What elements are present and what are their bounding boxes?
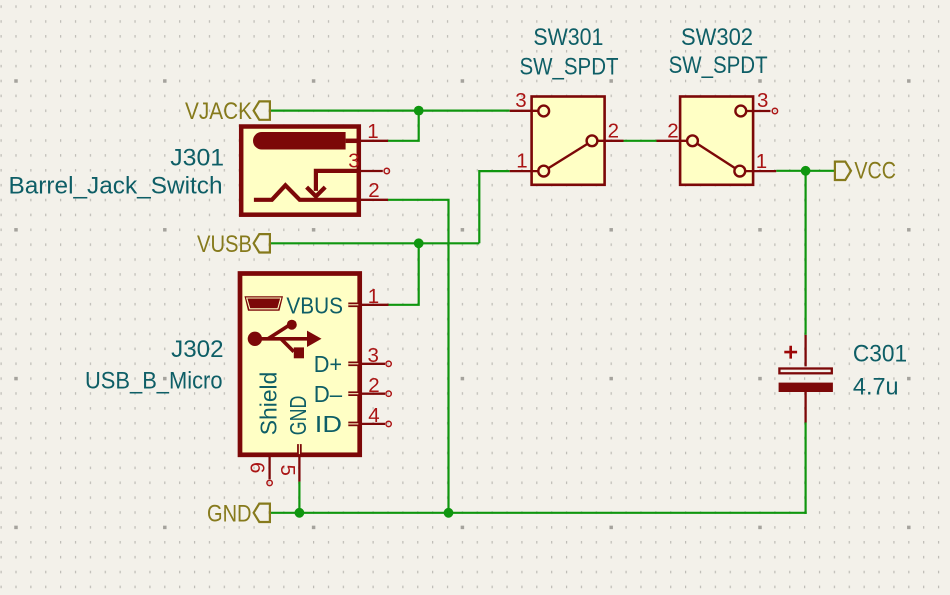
wire VUSB up to SW301 pin1 xyxy=(479,171,509,243)
J301 barrel bar graphic xyxy=(253,132,346,150)
svg-text:J302: J302 xyxy=(171,336,223,363)
svg-text:J301: J301 xyxy=(170,145,224,172)
J302 pin 1 VBUS xyxy=(348,303,358,308)
wire SW301 pin2 to SW302 pin2 xyxy=(624,140,657,142)
svg-text:GND: GND xyxy=(207,501,252,528)
C301 bottom plate xyxy=(779,383,833,392)
wire branch VUSB down to J302 pin1 xyxy=(389,243,419,304)
SW301 pin 3 xyxy=(510,110,539,112)
svg-text:C301: C301 xyxy=(853,340,907,367)
SW302 pin 2 xyxy=(657,140,688,142)
svg-text:VCC: VCC xyxy=(854,157,896,184)
connector J302 USB body xyxy=(240,274,360,455)
svg-text:3: 3 xyxy=(757,89,768,112)
svg-text:2: 2 xyxy=(368,179,379,202)
J302 USB trident icon xyxy=(255,326,307,352)
capacitor C301 top pin xyxy=(804,335,806,367)
junction J302 pin5 / GND rail xyxy=(295,508,305,518)
switch SW301 body xyxy=(532,97,605,185)
svg-text:4.7u: 4.7u xyxy=(853,373,899,400)
J301 switch zigzag xyxy=(254,185,358,200)
SW302 pin 3 (unconnected) xyxy=(735,106,746,117)
SW301 pin 2 xyxy=(587,135,598,146)
SW302 pin 1 xyxy=(734,166,745,177)
wire J301 pin2 net down to GND rail xyxy=(388,200,449,513)
svg-text:GND: GND xyxy=(285,396,311,436)
svg-text:SW301: SW301 xyxy=(533,24,603,51)
svg-text:D+: D+ xyxy=(314,351,342,377)
svg-text:VUSB: VUSB xyxy=(197,231,252,258)
C301 bottom pin xyxy=(804,392,806,423)
svg-text:VBUS: VBUS xyxy=(286,292,343,318)
J301 barrel stub to pin1 xyxy=(346,139,358,144)
wire GND rail xyxy=(270,512,807,514)
J301 switch arrow head xyxy=(307,187,326,196)
svg-text:VJACK: VJACK xyxy=(185,98,252,125)
junction J301 pin2 / GND rail xyxy=(444,508,454,518)
wire VJACK to SW301 pin3 xyxy=(270,109,510,111)
J302 pin 4 ID (unconnected) xyxy=(348,422,358,427)
svg-text:2: 2 xyxy=(667,119,678,142)
svg-text:6: 6 xyxy=(246,462,269,473)
connector J301 barrel jack body xyxy=(241,127,359,215)
J301 pin 3 (unconnected) xyxy=(358,170,383,172)
junction VUSB node xyxy=(414,238,424,248)
svg-text:USB_B_Micro: USB_B_Micro xyxy=(85,368,223,395)
svg-text:SW302: SW302 xyxy=(681,24,753,51)
global label VCC xyxy=(835,157,896,184)
J302 pin 3 D+ (unconnected) xyxy=(348,362,358,367)
svg-text:Barrel_Jack_Switch: Barrel_Jack_Switch xyxy=(9,172,223,199)
J301 pin 1 xyxy=(358,140,388,142)
C301 plus sign xyxy=(784,346,797,359)
svg-text:1: 1 xyxy=(368,285,379,308)
svg-text:ID: ID xyxy=(315,411,342,437)
junction VCC node xyxy=(801,166,811,176)
svg-text:2: 2 xyxy=(368,374,379,397)
svg-text:Shield: Shield xyxy=(255,372,281,436)
wire VCC node down to C301 top xyxy=(804,171,806,335)
svg-text:4: 4 xyxy=(368,404,379,427)
wire SW302 pin1 to VCC label xyxy=(776,170,835,172)
global label VJACK xyxy=(185,98,270,125)
J302 USB receptacle trapezoid xyxy=(245,296,284,311)
svg-text:1: 1 xyxy=(756,150,767,173)
C301 top plate xyxy=(779,369,831,374)
SW302 lever xyxy=(697,144,735,168)
junction VJACK node xyxy=(414,106,424,116)
wire VUSB xyxy=(270,242,479,244)
switch SW302 body xyxy=(680,97,753,185)
J302 pin 2 D- (unconnected) xyxy=(348,391,358,396)
SW301 pin 1 xyxy=(510,170,539,172)
SW301 lever xyxy=(549,144,588,168)
J302 pin 6 Shield (unconnected) xyxy=(268,456,270,479)
svg-text:SW_SPDT: SW_SPDT xyxy=(669,52,768,79)
J302 pin 5 GND xyxy=(297,444,302,454)
J301 pin 2 xyxy=(358,199,388,201)
global label VUSB xyxy=(197,231,270,258)
svg-text:2: 2 xyxy=(608,119,619,142)
svg-text:5: 5 xyxy=(276,465,299,476)
svg-text:3: 3 xyxy=(515,89,526,112)
svg-text:1: 1 xyxy=(367,120,378,143)
svg-text:3: 3 xyxy=(348,149,359,172)
J301 switch arm line to pin3 xyxy=(316,171,358,191)
svg-text:1: 1 xyxy=(516,150,527,173)
svg-text:3: 3 xyxy=(367,344,378,367)
svg-text:D–: D– xyxy=(314,381,343,407)
svg-text:SW_SPDT: SW_SPDT xyxy=(520,54,619,81)
wire branch VJACK down to J301 pin1 xyxy=(388,111,419,141)
wire C301 bottom to GND rail xyxy=(804,423,806,514)
wire J302 pin5 to GND rail xyxy=(298,482,300,513)
global label GND xyxy=(207,501,270,528)
